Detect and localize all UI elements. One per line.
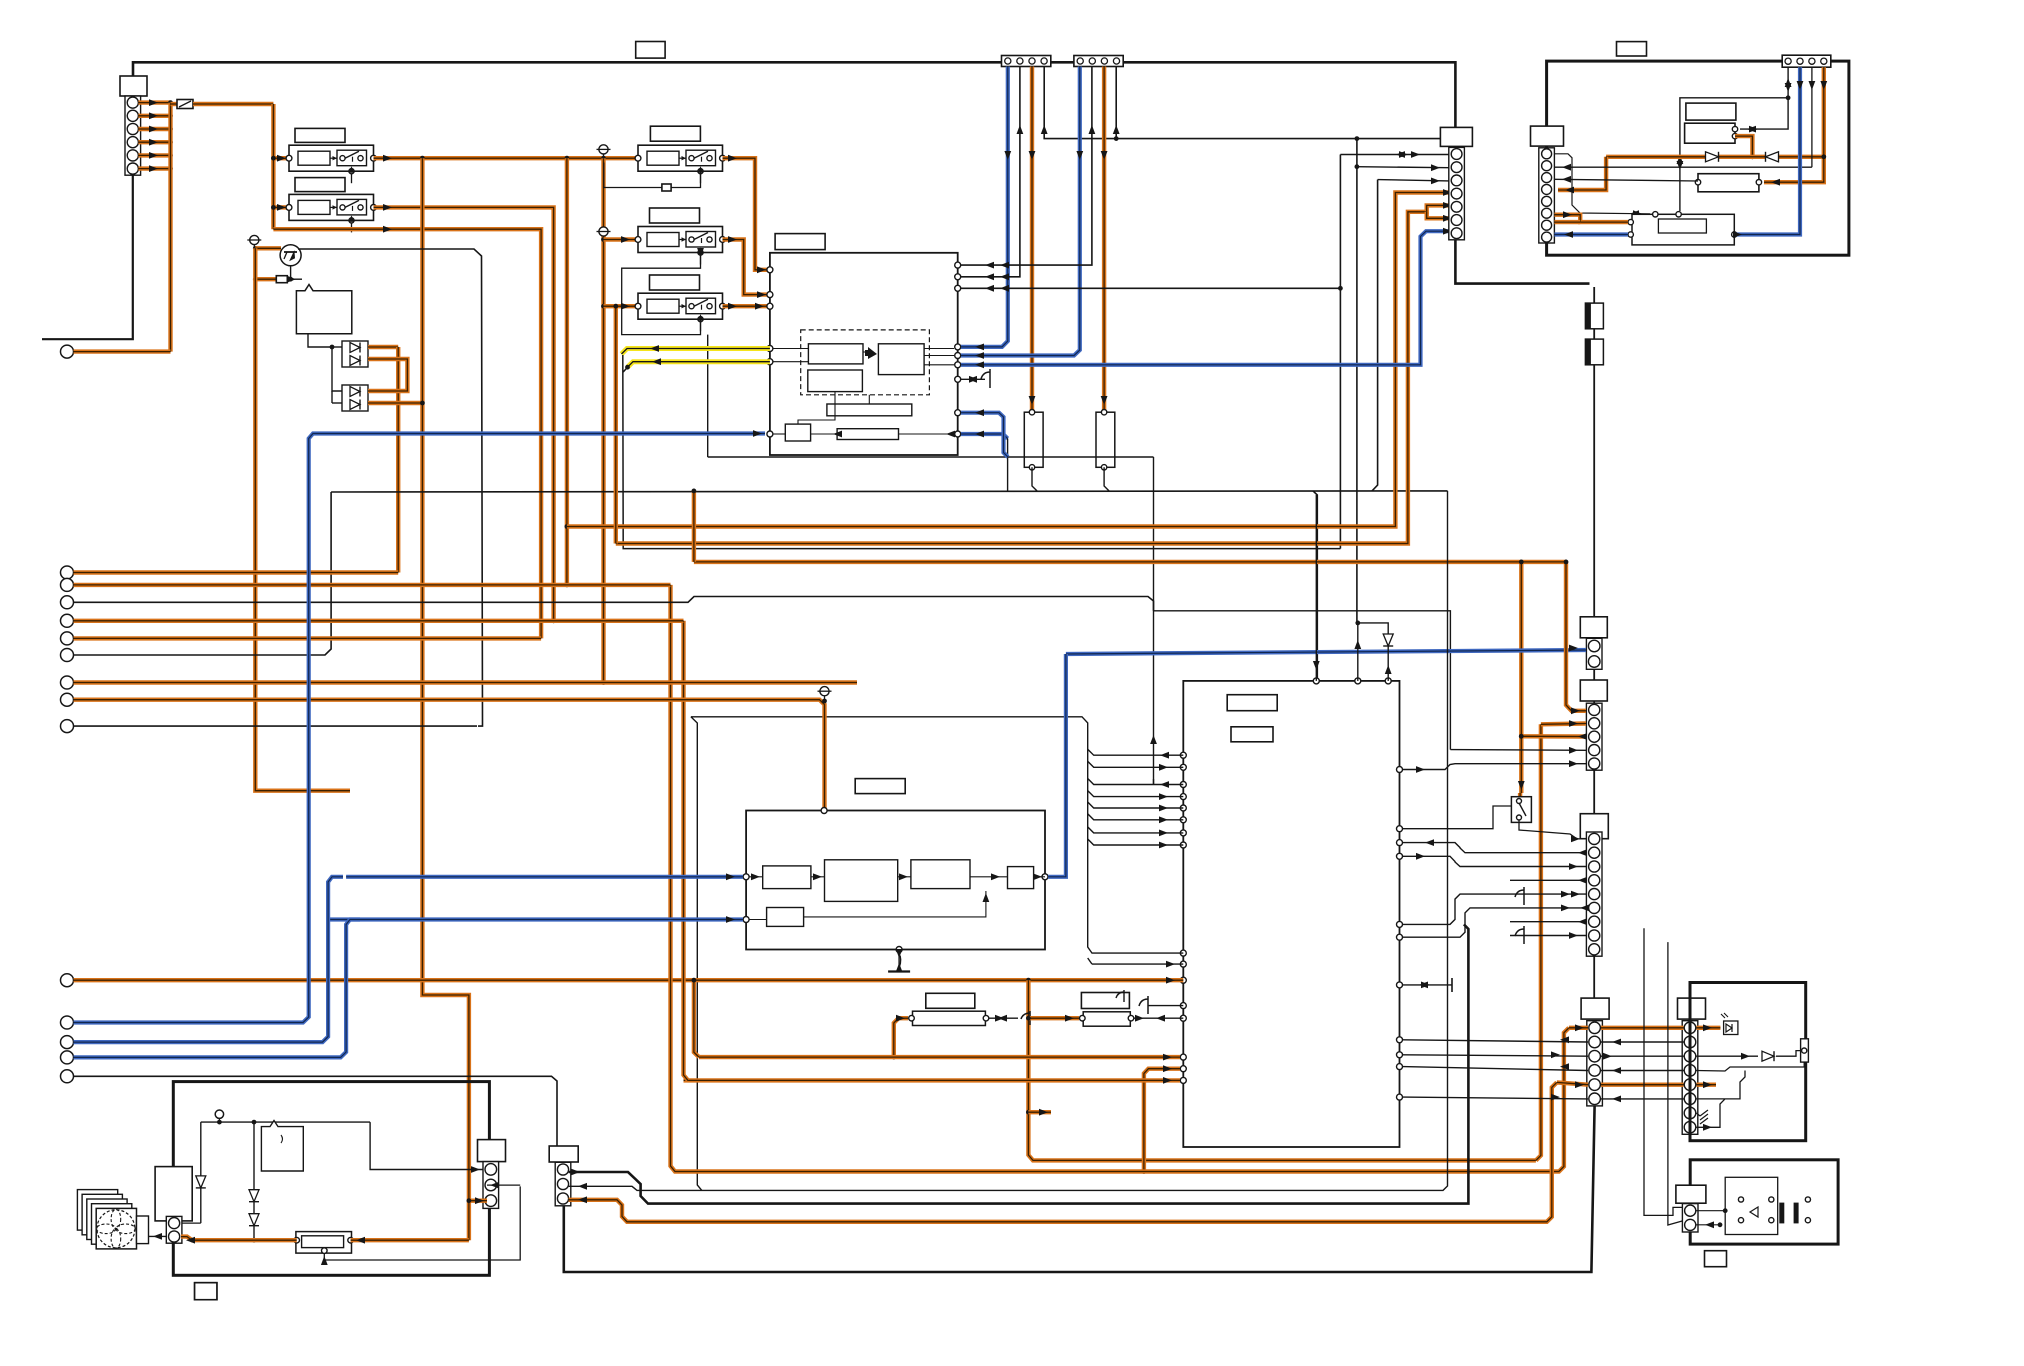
wire B2 black	[961, 67, 1092, 266]
wire relay R2L input	[273, 205, 289, 209]
wire ecu y842	[1403, 843, 1586, 853]
diode pack D1 a	[350, 343, 360, 353]
wire row1 orange	[1569, 1026, 1588, 1030]
arrow mB1	[751, 873, 760, 880]
wire t5	[74, 636, 542, 640]
wire y457 line	[708, 456, 1154, 458]
arrow hookA	[969, 376, 978, 383]
wire yellow 2	[628, 362, 770, 368]
fuse box comp	[913, 1011, 986, 1025]
wire harness branch3	[1088, 779, 1184, 785]
wire harness branch1	[1088, 749, 1184, 755]
junction fusecomp	[891, 1055, 896, 1060]
arrow E3c4	[1569, 863, 1578, 870]
wire T1 vertical long	[255, 248, 350, 790]
arrow R1C in-module	[757, 266, 766, 273]
junction feed R1L	[271, 156, 276, 161]
wire y1056 long	[699, 1055, 1180, 1059]
label fan connector	[478, 1140, 506, 1162]
wire row2	[1403, 1040, 1588, 1042]
battery box	[155, 1167, 192, 1221]
wire t10 line	[74, 978, 1184, 982]
arrow t10	[1166, 977, 1175, 984]
wire B3 orange	[1102, 67, 1106, 413]
wire pot wiper	[324, 1186, 520, 1260]
wire tp fan stem	[218, 1118, 220, 1122]
module A inner wire1	[773, 348, 808, 350]
junction tp fan	[217, 1120, 222, 1125]
horn relay box	[1690, 1160, 1838, 1244]
diode fan3	[249, 1214, 259, 1226]
wire F c2	[569, 491, 1448, 1191]
connector strip A pin4	[1041, 58, 1047, 64]
wire module y288 to C1riser	[961, 287, 1340, 289]
wire row5 orange	[1557, 1082, 1588, 1084]
wire batt circuit left	[200, 1122, 202, 1223]
terminal black4	[61, 1070, 74, 1083]
wire J1 orange bus vertical	[168, 103, 172, 352]
arrow A2b	[1000, 273, 1009, 280]
arrow TRL2	[1562, 164, 1571, 171]
ECU top pins	[1313, 678, 1391, 684]
arrow A2a	[1017, 125, 1024, 134]
arrow E2c4	[1569, 747, 1578, 754]
wire E2 c2 feed	[1536, 724, 1541, 1160]
sensor box coolant	[296, 285, 351, 334]
coolant sensor box2	[261, 1121, 303, 1172]
arrow x1153 up	[1150, 735, 1157, 744]
wire blue2	[74, 877, 344, 1042]
arrow blue E1	[1569, 645, 1578, 652]
wire R1L to fan-pot vertical	[422, 158, 469, 1240]
wire t8	[74, 700, 825, 811]
arrow TRL1a	[1630, 210, 1639, 217]
wire ECU diode branch	[1358, 623, 1388, 681]
pot inner	[302, 1236, 344, 1248]
module B ground stem	[898, 950, 900, 968]
rect C pins	[1695, 180, 1761, 185]
wire switch drop	[1518, 793, 1522, 798]
module A block3	[808, 370, 863, 392]
arrow E8	[1703, 1124, 1712, 1131]
wire pack2 stub2	[332, 402, 342, 404]
connector C strip	[1449, 147, 1465, 239]
arrow B3b	[1101, 396, 1108, 405]
wire TR pin1 branch	[1740, 98, 1788, 129]
arrow pot right	[356, 1237, 365, 1244]
wire x1153 vertical	[1153, 457, 1155, 785]
rect C meter	[1698, 174, 1759, 192]
wire ecu y964	[1092, 963, 1183, 965]
inline connector K2	[1585, 339, 1603, 365]
fan stack	[77, 1190, 131, 1245]
testpoint T4	[818, 687, 832, 696]
resistor R-A pins	[1029, 410, 1034, 470]
wire E3 c7	[1510, 921, 1586, 923]
module A dashed block	[801, 330, 930, 395]
wire row5b	[1601, 1082, 1684, 1086]
arrow E3c8	[1569, 932, 1578, 939]
wire F c1	[569, 924, 1469, 1203]
testpoint T3	[597, 227, 611, 236]
junction base feed	[253, 277, 258, 282]
connector strip A	[1002, 56, 1051, 67]
module A block2	[878, 344, 924, 375]
junction t10 x1028	[1026, 978, 1031, 983]
capacitor bars	[1779, 1203, 1798, 1224]
module B w4	[970, 876, 1008, 878]
fuse F1 slash	[179, 101, 191, 107]
label comp B	[1081, 993, 1129, 1009]
label relay R3C	[650, 275, 700, 290]
arrow hb4	[1159, 793, 1168, 800]
arrow E3c6	[1561, 905, 1570, 912]
module A inner wire2	[773, 361, 808, 363]
arrow TR branch	[1747, 126, 1756, 133]
arrow row3c	[1741, 1053, 1750, 1060]
label connector D	[1581, 998, 1609, 1019]
label relay R1C	[650, 126, 700, 141]
wire relay R1L input	[273, 156, 289, 160]
fan control box	[173, 1082, 489, 1276]
arrow potfeed	[475, 1197, 484, 1204]
connector J1 strip	[125, 96, 141, 175]
wire row3c	[1697, 1055, 1759, 1057]
junction x567 t2	[565, 583, 570, 588]
connector F strip	[555, 1162, 571, 1206]
wire J1 pin1 to fuse	[171, 102, 178, 106]
arrow comp3	[1039, 1109, 1048, 1116]
module A hook wire	[961, 378, 985, 380]
junction fan diode2	[252, 1120, 257, 1125]
wire terminal B+ to bus	[74, 349, 171, 353]
arrow E3c6b	[1580, 905, 1589, 912]
wire bus y490 to C3	[1372, 180, 1378, 491]
wire TRL pin7	[1554, 220, 1580, 224]
diode pack D2	[342, 385, 368, 411]
wire TR orange main2	[1719, 155, 1765, 159]
module B w7	[804, 891, 986, 917]
arrow module A w10	[946, 431, 955, 438]
arrow B2a	[1089, 125, 1096, 134]
wire fan c2	[487, 1184, 520, 1186]
wire t2 riser x567	[565, 158, 569, 585]
arrow C3	[1431, 178, 1440, 185]
termination ecu984	[1451, 978, 1453, 992]
junction switch feed	[1519, 560, 1524, 565]
wire T1 stem	[253, 245, 255, 249]
connector strip A pin2	[1017, 58, 1023, 64]
wire harness branch2	[1088, 761, 1184, 767]
transistor Q1	[280, 245, 301, 266]
terminal B+ left	[61, 345, 74, 358]
wire TRL pin3	[1554, 179, 1698, 181]
junction emitter-resistor	[288, 277, 293, 282]
wire battery top	[173, 1082, 175, 1167]
arrow yellow1	[650, 345, 659, 352]
wire blue1	[74, 434, 766, 1023]
junction E2c3 feed	[1519, 734, 1524, 739]
wire ecu1005 stub	[1148, 1005, 1183, 1007]
horn relay inner	[1725, 1177, 1778, 1234]
arrow J1 pin4	[149, 139, 158, 146]
wire sec link2	[1668, 942, 1684, 1225]
wire J1 pin6	[138, 166, 170, 170]
terminal t4	[61, 614, 74, 627]
wire harness bus	[691, 717, 1183, 953]
module B block1	[763, 866, 811, 889]
module A inner wire4	[924, 348, 954, 350]
arrow D3	[1551, 1051, 1560, 1058]
arrow R2C in	[621, 236, 630, 243]
wire A3 orange	[1030, 67, 1034, 413]
wire row6c	[1697, 1071, 1746, 1099]
arrow TRblue	[1733, 231, 1742, 238]
arrow E3c5b	[1571, 891, 1580, 898]
connector strip B pin1	[1077, 58, 1083, 64]
horn arrow	[1750, 1207, 1758, 1217]
wire module B blue in2	[328, 917, 743, 921]
wire ecu y763	[1403, 764, 1586, 770]
wire gauge orange out	[1735, 136, 1752, 157]
TR bottom inner	[1658, 219, 1706, 233]
arrow R2C out	[728, 236, 737, 243]
wire comp3 feed	[1028, 1110, 1051, 1114]
diode pack D1 b	[350, 356, 360, 366]
wire ecu y1080 feed	[684, 1078, 1181, 1082]
junction y561 riser top	[692, 489, 697, 494]
label frame bottom-left	[195, 1283, 217, 1300]
arrow TRblue d	[1797, 81, 1804, 90]
connector D strip	[1587, 1021, 1603, 1106]
wire T2 stem	[603, 154, 605, 158]
wire E2 c2	[1541, 721, 1586, 726]
arrow TR vert up	[1677, 155, 1684, 164]
wire ecu y924	[1403, 894, 1586, 924]
arrow R2L out	[383, 204, 392, 211]
wire J1 pin4	[138, 140, 170, 144]
arrow Fc2	[578, 1183, 587, 1190]
relay R2C	[635, 227, 725, 265]
wire J1 pin5	[138, 153, 170, 157]
arrow fan c1	[471, 1166, 480, 1173]
arrow compB a	[1135, 1015, 1144, 1022]
module B block4	[1008, 867, 1034, 889]
wire pot feed	[469, 1198, 487, 1202]
arrow TR4	[1820, 81, 1827, 90]
wire row2b	[1601, 1041, 1684, 1043]
LED symbol	[1721, 1013, 1738, 1035]
module A inner wire3	[863, 351, 865, 353]
wire TRL pin8 blue	[1554, 232, 1628, 236]
terminal t8	[61, 693, 74, 706]
wire TRL pin2	[1554, 166, 1812, 168]
wire bus y490	[331, 491, 1447, 492]
junction c1 feed	[1564, 560, 1569, 565]
arrow D6	[1551, 1094, 1560, 1101]
module B w1	[749, 876, 763, 878]
wire C pin3	[1378, 180, 1449, 181]
wire C pin2	[1357, 167, 1449, 168]
inline connector K1	[1585, 303, 1603, 329]
arrow R1L in	[277, 155, 286, 162]
arrow A2c	[985, 273, 994, 280]
wire J1 pin2	[138, 114, 170, 118]
terminal t3	[61, 596, 74, 609]
wire orange y543 jumper	[1427, 212, 1460, 219]
arrow D5	[1575, 1081, 1584, 1088]
shield hook2	[1515, 926, 1524, 944]
terminal ign feed	[61, 974, 74, 987]
junction R1L-t2 branch	[565, 156, 570, 161]
wire switch feed	[1519, 562, 1523, 793]
module B block3	[911, 860, 970, 889]
wire switch left1	[1403, 806, 1511, 829]
wire batt circuit top	[201, 1121, 370, 1123]
wire pack bus2	[331, 391, 333, 403]
wire right spine mid	[1593, 638, 1595, 1000]
wire module B blue out	[1048, 654, 1066, 877]
connector TR-L strip	[1539, 148, 1555, 243]
wire orange y561	[694, 560, 1566, 564]
connector E3 strip	[1586, 832, 1602, 956]
wire orange y543	[616, 205, 1460, 543]
wire row6	[1403, 1097, 1588, 1099]
arrow fusecomp	[896, 1015, 905, 1022]
arrow ecu pin2	[1354, 640, 1361, 649]
label ECU 1	[1227, 695, 1277, 711]
arrow C2	[1431, 164, 1440, 171]
arrow mB3	[899, 873, 908, 880]
wire black x697	[691, 717, 702, 1191]
arrow mB5	[1033, 873, 1042, 880]
arrow E1	[1703, 1024, 1712, 1031]
wire E2 c3	[1521, 734, 1586, 739]
wire fuse right stub	[989, 1017, 1018, 1019]
wire x1153 end	[1153, 779, 1155, 785]
arrow B3a	[1101, 151, 1108, 160]
switch S1 contacts	[1517, 799, 1527, 821]
wire ecu y856	[1403, 856, 1586, 866]
wire E3 c4b	[1510, 879, 1586, 881]
module A inner wire8	[798, 392, 835, 425]
connector TR pin2	[1797, 58, 1803, 64]
diode pack D2 b	[350, 400, 360, 410]
module A block1	[808, 344, 863, 364]
connector strip B	[1074, 56, 1123, 67]
wire blue to E1	[1066, 650, 1586, 654]
junction J1 pin5	[168, 153, 173, 158]
wire E3 c8	[1510, 935, 1586, 937]
wire E2 c1 feed	[1566, 562, 1586, 711]
junction switch c3	[1519, 734, 1524, 739]
junction x603 r2in	[601, 237, 606, 242]
wire B1 blue	[961, 67, 1080, 356]
module A inner wire7	[868, 395, 870, 404]
connector strip B pin3	[1101, 58, 1107, 64]
label connector E2	[1580, 680, 1607, 701]
wire base feed orange	[255, 277, 276, 281]
arrow blue out	[975, 431, 984, 438]
arrow y526 end	[1443, 189, 1452, 196]
wire t1	[74, 570, 399, 574]
wire t9	[74, 725, 478, 727]
arrow E3c3	[1578, 849, 1587, 856]
arrow R1L out	[383, 155, 392, 162]
wire harness branch7	[1088, 827, 1184, 833]
diode pack D1	[342, 341, 368, 367]
wire row3b	[1601, 1055, 1684, 1057]
arrow J1 pin5	[149, 152, 158, 159]
terminal blue3	[61, 1051, 74, 1064]
junction y1068	[1142, 1169, 1147, 1174]
module B top pin	[821, 808, 827, 814]
wire D1a out	[368, 345, 398, 349]
wire TR blue right	[1734, 67, 1800, 234]
wire A4 black	[1044, 67, 1455, 139]
junction horn	[1723, 1208, 1728, 1213]
wire R1C out	[723, 158, 770, 270]
arrow yellow2	[652, 358, 661, 365]
wire t2	[74, 583, 671, 587]
junction yellow2 drop	[625, 365, 630, 370]
pot pins	[294, 1237, 354, 1253]
label relay R2C	[650, 208, 700, 223]
arrow E2c1	[1571, 707, 1580, 714]
arrow mB2	[813, 873, 822, 880]
diode fan1	[196, 1176, 206, 1188]
arrow horn2	[1705, 1221, 1714, 1228]
junction fan orange	[252, 1238, 257, 1243]
security side pin	[1802, 1048, 1807, 1053]
arrow mBin1	[726, 873, 735, 880]
wire row1 orange b	[1601, 1026, 1684, 1030]
wire y610 line	[1154, 611, 1451, 750]
label frame top-center	[636, 42, 665, 59]
arrow TR1 dn	[1785, 83, 1792, 92]
terminal t1	[61, 566, 74, 579]
wire T4 stem	[824, 696, 826, 702]
arrow R3C in-module	[755, 303, 764, 310]
wire row4c	[1697, 1062, 1805, 1071]
diode security	[1762, 1051, 1774, 1061]
label connector C	[1440, 127, 1472, 146]
arrow y288a	[1000, 285, 1009, 292]
wire D1b out	[368, 359, 407, 391]
connector TR pin4	[1821, 58, 1827, 64]
terminal t7	[61, 676, 74, 689]
arrow hb8	[1159, 842, 1168, 849]
wire blue out right	[961, 434, 1008, 439]
wire y561 riser	[692, 491, 696, 562]
wire A2 black	[961, 67, 1020, 277]
junction J1 pin1	[168, 100, 173, 105]
wire row1 orange c	[1697, 1026, 1721, 1030]
inline connector K2 bar	[1585, 339, 1591, 365]
wire row4b	[1601, 1070, 1684, 1072]
junction horn2	[1718, 1222, 1723, 1227]
arrow blue c7	[1443, 228, 1452, 235]
arrow R3C in	[621, 303, 630, 310]
arrow y543 end2	[1443, 215, 1452, 222]
junction x1028 comp	[1026, 1110, 1031, 1115]
arrow R3C loop	[697, 248, 704, 257]
wire TR orange left drop	[1558, 157, 1606, 190]
arrow TR branch2	[1749, 126, 1758, 133]
wire row6b	[1601, 1098, 1684, 1100]
terminal t2	[61, 578, 74, 591]
shield hook1	[1515, 887, 1524, 905]
